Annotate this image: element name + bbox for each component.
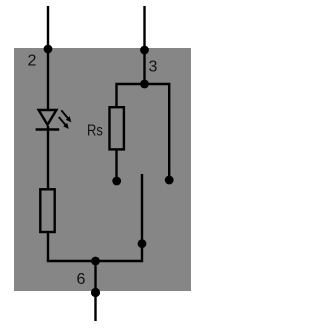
LED D1 emission arrow 2	[59, 117, 69, 129]
resistor R1 body	[40, 189, 54, 232]
wire pin3 top lead	[143, 6, 145, 84]
node pin 3	[140, 46, 149, 55]
wire bottom rail horizontal	[47, 174, 142, 261]
LED D1 triangle	[39, 110, 57, 125]
wire resistor to bottom rail	[47, 232, 49, 261]
component body (gray box)	[14, 48, 191, 291]
svg-text:6: 6	[77, 271, 86, 288]
node pin 6 terminal	[91, 288, 100, 297]
svg-text:Rs: Rs	[87, 123, 103, 140]
wire pin6 drop	[94, 261, 96, 321]
wire LED to resistor	[47, 126, 49, 189]
node contact B	[165, 176, 174, 185]
resistor Rs body	[110, 107, 124, 149]
LED D1 cathode bar	[36, 128, 60, 130]
node pin 6 junction	[91, 257, 100, 266]
node contact A	[112, 177, 121, 186]
wire Rs to contact	[115, 149, 117, 181]
LED D1 emission arrow 1	[61, 110, 71, 122]
svg-text:3: 3	[149, 59, 158, 76]
wire pin3 branch rail	[117, 84, 170, 180]
wire pin2 top lead	[47, 6, 49, 110]
node pin 2	[44, 45, 53, 54]
node junction pin3 split	[140, 80, 149, 89]
svg-text:2: 2	[28, 53, 37, 70]
node switch pole junction	[138, 239, 147, 248]
